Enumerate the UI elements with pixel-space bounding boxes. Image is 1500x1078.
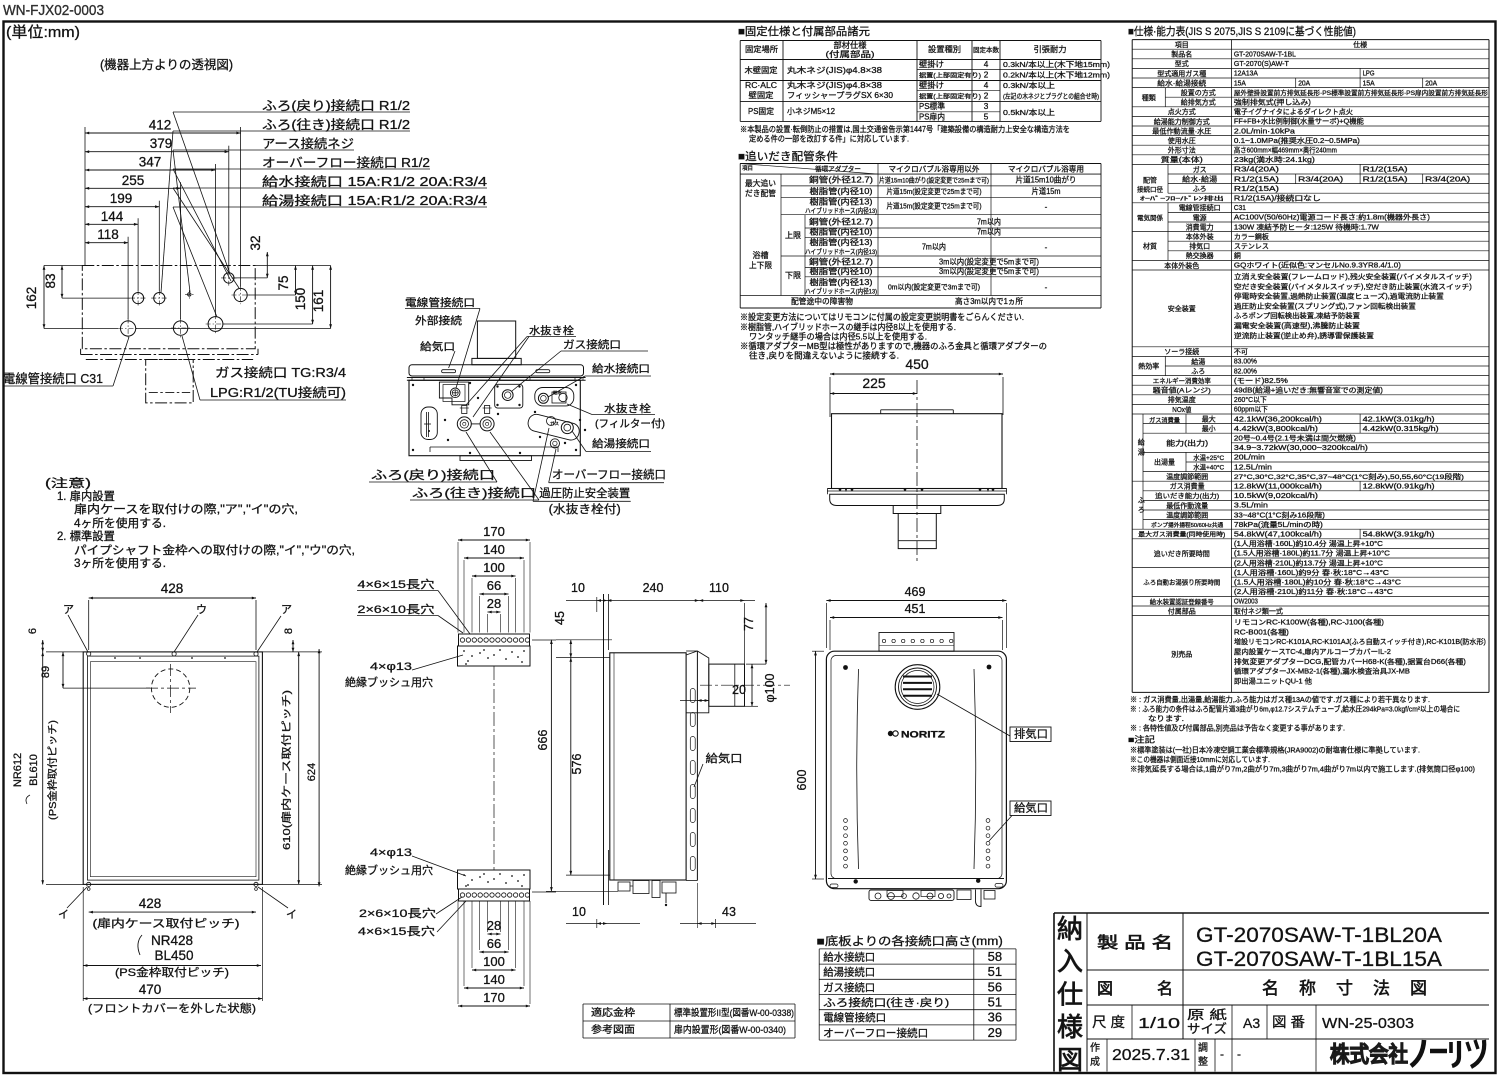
svg-text:(扉内ケース取付ピッチ): (扉内ケース取付ピッチ)	[93, 916, 240, 930]
svg-text:壁掛け: 壁掛け	[919, 80, 944, 90]
svg-text:66: 66	[487, 578, 501, 593]
svg-text:28: 28	[487, 918, 501, 933]
svg-text:給水接続口: 給水接続口	[823, 950, 875, 963]
svg-text:10.5kW(9,020kcal/h): 10.5kW(9,020kcal/h)	[1234, 493, 1318, 500]
exhaust collar and pipe side view	[686, 651, 709, 713]
svg-text:428: 428	[161, 581, 184, 596]
svg-text:外形寸法: 外形寸法	[1168, 146, 1196, 155]
svg-text:■注記: ■注記	[1128, 734, 1156, 744]
svg-text:原 紙: 原 紙	[1187, 1007, 1228, 1022]
svg-text:電線管接続口: 電線管接続口	[823, 1011, 886, 1024]
svg-text:51: 51	[988, 995, 1002, 1010]
svg-text:屋外壁掛設置前方排気延長形·PS標準設置前方排気延長形·PS: 屋外壁掛設置前方排気延長形·PS標準設置前方排気延長形·PS扉内設置前方排気延長…	[1234, 88, 1489, 97]
svg-text:3ヶ所を使用する.: 3ヶ所を使用する.	[74, 556, 166, 570]
svg-text:停電時安全装置,過熱防止装置(温度ヒューズ),過電流防止装置: 停電時安全装置,過熱防止装置(温度ヒューズ),過電流防止装置	[1234, 292, 1444, 301]
svg-text:※本製品の設置·転倒防止の措置は,国土交通省告示第1447号: ※本製品の設置·転倒防止の措置は,国土交通省告示第1447号「建築設備の構造耐力…	[740, 124, 1070, 134]
svg-text:サイズ: サイズ	[1187, 1021, 1227, 1036]
left vertical dims 83 and 162	[61, 266, 63, 299]
svg-text:42.1kW(3.01kg/h): 42.1kW(3.01kg/h)	[1363, 416, 1435, 423]
svg-text:58: 58	[988, 949, 1002, 964]
svg-text:図: 図	[1097, 981, 1113, 998]
svg-text:最低作動流量: 最低作動流量	[1166, 501, 1208, 510]
svg-text:ふろ接続口(往き·戻り): ふろ接続口(往き·戻り)	[823, 996, 949, 1009]
svg-text:調: 調	[1198, 1041, 1208, 1054]
svg-text:ふろ(戻り)接続口 R1/2: ふろ(戻り)接続口 R1/2	[262, 98, 410, 113]
svg-text:樹脂管(内径13): 樹脂管(内径13)	[810, 197, 873, 207]
svg-text:定める件の一部を改訂する件」に対応しています.: 定める件の一部を改訂する件」に対応しています.	[749, 134, 909, 144]
svg-text:屋内設置ケースTC-4,扉内アルコーブカバーIL-2: 屋内設置ケースTC-4,扉内アルコーブカバーIL-2	[1234, 647, 1391, 656]
svg-text:(1人用浴槽·160L)約10.4分 湯温上昇+10°C: (1人用浴槽·160L)約10.4分 湯温上昇+10°C	[1234, 539, 1383, 548]
svg-text:WN-25-0303: WN-25-0303	[1322, 1015, 1414, 1032]
bottom flange rounded	[830, 494, 1005, 505]
svg-text:FF+FB+水比例制御(水量サーボ)+Q機能: FF+FB+水比例制御(水量サーボ)+Q機能	[1234, 117, 1364, 126]
svg-text:100: 100	[483, 560, 505, 575]
svg-text:往き,戻りを間違えないように接続する.: 往き,戻りを間違えないように接続する.	[749, 350, 899, 361]
svg-text:給気口: 給気口	[420, 340, 455, 353]
svg-text:本体外装色: 本体外装色	[1164, 261, 1199, 270]
svg-text:丸木ネジ(JIS)φ4.8×38: 丸木ネジ(JIS)φ4.8×38	[787, 65, 883, 75]
svg-text:412: 412	[149, 118, 172, 133]
svg-text:高さ600mm×幅469mm×奥行240mm: 高さ600mm×幅469mm×奥行240mm	[1234, 146, 1337, 155]
svg-text:170: 170	[483, 990, 505, 1005]
svg-text:出湯量: 出湯量	[1154, 458, 1175, 467]
svg-text:■固定仕様と付属部品諸元: ■固定仕様と付属部品諸元	[738, 24, 870, 38]
top bracket front view	[879, 633, 954, 652]
svg-text:0.3kN/本以上: 0.3kN/本以上	[1003, 80, 1055, 90]
svg-text:ポンプ揚外揚程50/60Hz共通: ポンプ揚外揚程50/60Hz共通	[1151, 521, 1223, 529]
svg-text:材質: 材質	[1143, 242, 1157, 251]
svg-text:R3/4(20A): R3/4(20A)	[1298, 176, 1343, 183]
svg-text:ガス接続口: ガス接続口	[563, 338, 621, 351]
svg-text:49dB(給湯+追いだき:無響音室での測定値): 49dB(給湯+追いだき:無響音室での測定値)	[1234, 386, 1383, 395]
svg-text:144: 144	[101, 209, 124, 224]
svg-text:上限: 上限	[785, 231, 801, 240]
svg-text:■追いだき配管条件: ■追いだき配管条件	[738, 149, 838, 163]
svg-text:240: 240	[643, 581, 664, 595]
svg-text:GT-2070(S)AW-T: GT-2070(S)AW-T	[1234, 61, 1290, 68]
svg-text:4×6×15長穴: 4×6×15長穴	[358, 924, 435, 938]
svg-text:NORITZ: NORITZ	[901, 730, 946, 740]
side body outline	[610, 653, 686, 880]
svg-text:36: 36	[988, 1010, 1002, 1025]
horizontal dimension lines 412/379/347/255/199/144/118	[85, 132, 241, 134]
svg-text:20号~0.4号(2.1号未満は間欠燃焼): 20号~0.4号(2.1号未満は間欠燃焼)	[1234, 434, 1356, 443]
svg-text:水温+25°C: 水温+25°C	[1193, 453, 1224, 462]
svg-text:4.42kW(3,800kcal/h): 4.42kW(3,800kcal/h)	[1234, 426, 1318, 433]
svg-text:排気温度: 排気温度	[1168, 395, 1196, 404]
svg-text:壁掛け: 壁掛け	[919, 59, 944, 69]
svg-text:54.8kW(3.91kg/h): 54.8kW(3.91kg/h)	[1363, 532, 1435, 539]
svg-text:110: 110	[709, 581, 729, 595]
svg-text:GT-2070SAW-T-1BL20A: GT-2070SAW-T-1BL20A	[1196, 924, 1442, 947]
svg-text:(注意): (注意)	[45, 476, 91, 490]
svg-text:循環アダプターJX-MB2-1(各種),漏水検査治具JX-M: 循環アダプターJX-MB2-1(各種),漏水検査治具JX-MB	[1234, 667, 1410, 676]
svg-text:NR428: NR428	[151, 933, 193, 948]
svg-text:2×6×10長穴: 2×6×10長穴	[358, 602, 435, 616]
svg-text:PS固定: PS固定	[748, 106, 774, 116]
svg-text:162: 162	[24, 287, 39, 310]
svg-text:2: 2	[984, 71, 989, 80]
svg-text:(機器上方よりの透視図): (機器上方よりの透視図)	[100, 57, 233, 72]
svg-text:給湯接続口 15A:R1/2 20A:R3/4: 給湯接続口 15A:R1/2 20A:R3/4	[262, 193, 487, 208]
svg-text:LPG:R1/2(TU接続可): LPG:R1/2(TU接続可)	[210, 385, 346, 400]
svg-text:点火方式: 点火方式	[1168, 107, 1196, 116]
svg-text:ハイブリッドホース(内径13): ハイブリッドホース(内径13)	[805, 287, 877, 296]
svg-text:給水接続口: 給水接続口	[592, 362, 650, 375]
svg-text:ステンレス: ステンレス	[1234, 243, 1269, 251]
svg-text:28: 28	[487, 596, 501, 611]
vertical pipe detail left	[426, 412, 428, 437]
svg-text:固定場所: 固定場所	[745, 44, 778, 54]
svg-text:マイクロバブル浴専用: マイクロバブル浴専用	[1008, 164, 1084, 174]
svg-text:上下限: 上下限	[749, 261, 772, 270]
svg-text:161: 161	[311, 290, 326, 313]
svg-text:R1/2(15A): R1/2(15A)	[1363, 176, 1408, 183]
svg-text:リモコンRC-K100W(各種),RC-J100(各種): リモコンRC-K100W(各種),RC-J100(各種)	[1234, 618, 1384, 627]
svg-text:製 品 名: 製 品 名	[1097, 934, 1173, 952]
svg-text:15A: 15A	[1234, 80, 1246, 87]
svg-text:電源: 電源	[1193, 213, 1207, 222]
svg-text:NOx値: NOx値	[1172, 405, 1191, 414]
svg-text:10: 10	[572, 905, 586, 919]
svg-text:型式: 型式	[1175, 59, 1189, 68]
mounting rail double line	[407, 377, 586, 379]
svg-text:増設リモコンRC-K101A,RC-K101AJ(ふろ自動ス: 増設リモコンRC-K101A,RC-K101AJ(ふろ自動スイッチ付き),RC-…	[1234, 637, 1486, 646]
svg-text:0.5kN/本以上: 0.5kN/本以上	[1003, 107, 1055, 117]
svg-text:0.2kN/本以上(木下地12mm): 0.2kN/本以上(木下地12mm)	[1003, 70, 1111, 80]
svg-text:7m以内: 7m以内	[922, 242, 946, 252]
svg-text:部材仕様: 部材仕様	[834, 40, 867, 50]
svg-text:給水接続口 15A:R1/2 20A:R3/4: 給水接続口 15A:R1/2 20A:R3/4	[262, 174, 487, 189]
svg-text:ふろ: ふろ	[1191, 367, 1205, 375]
bracket ext lines	[457, 542, 459, 633]
svg-text:漏電安全装置(高速型),沸騰防止装置: 漏電安全装置(高速型),沸騰防止装置	[1234, 321, 1360, 330]
svg-text:32: 32	[248, 235, 263, 250]
svg-text:小ネジM5×12: 小ネジM5×12	[787, 106, 835, 116]
svg-text:空だき安全装置(バイメタルスイッチ),空だき防止装置(水流ス: 空だき安全装置(バイメタルスイッチ),空だき防止装置(水流スイッチ)	[1234, 282, 1472, 291]
svg-text:4×φ13: 4×φ13	[370, 847, 412, 859]
svg-text:R3/4(20A): R3/4(20A)	[1425, 176, 1470, 183]
svg-text:※ : ガス消費量,出湯量,給湯能力,ふろ能力はガス種13A: ※ : ガス消費量,出湯量,給湯能力,ふろ能力はガス種13Aの値です.ガス種によ…	[1130, 695, 1430, 704]
svg-text:3.5L/min: 3.5L/min	[1234, 503, 1268, 510]
connection hole circles in top view	[133, 293, 144, 304]
svg-text:電線管接続口 C31: 電線管接続口 C31	[3, 371, 103, 386]
right vertical dims 32 75 150 161	[266, 252, 268, 278]
svg-text:作: 作	[1090, 1042, 1100, 1054]
svg-text:R1/2(15A): R1/2(15A)	[1234, 186, 1279, 193]
svg-text:適応金枠: 適応金枠	[591, 1006, 635, 1019]
svg-text:電子イグナイタによるダイレクト点火: 電子イグナイタによるダイレクト点火	[1234, 107, 1353, 116]
svg-text:参考図面: 参考図面	[591, 1023, 635, 1036]
svg-text:ガス接続口 TG:R3/4: ガス接続口 TG:R3/4	[215, 365, 346, 380]
svg-text:逆流防止装置(逆止め弁),誘導雷保護装置: 逆流防止装置(逆止め弁),誘導雷保護装置	[1234, 331, 1374, 340]
svg-text:様: 様	[1057, 1012, 1083, 1042]
dim 666 between brackets	[532, 639, 556, 641]
svg-text:(1.5人用浴槽·180L)約11.7分 湯温上昇+10°C: (1.5人用浴槽·180L)約11.7分 湯温上昇+10°C	[1234, 549, 1390, 558]
svg-text:片道15m(設定変更で25mまで可): 片道15m(設定変更で25mまで可)	[887, 187, 982, 196]
svg-text:配管途中の障害物: 配管途中の障害物	[791, 296, 853, 306]
svg-text:給水装置認証登録番号: 給水装置認証登録番号	[1150, 597, 1214, 606]
svg-text:(PS金枠取付ピッチ): (PS金枠取付ピッチ)	[115, 965, 229, 979]
panel outer rectangle	[83, 652, 262, 885]
bottom mounting holes	[87, 882, 91, 886]
svg-text:20L/min: 20L/min	[1234, 455, 1265, 462]
svg-text:過圧防止安全装置: 過圧防止安全装置	[539, 486, 630, 500]
svg-text:入: 入	[1057, 947, 1083, 977]
svg-text:設置の方式: 設置の方式	[1181, 88, 1216, 97]
NORITZ logo	[888, 730, 946, 740]
svg-text:項目: 項目	[742, 165, 753, 172]
svg-text:※この機器は側面近接10mmに対応しています.: ※この機器は側面近接10mmに対応しています.	[1130, 755, 1270, 764]
svg-text:AC100V(50/60Hz)電源コード長さ:約1.8m(機: AC100V(50/60Hz)電源コード長さ:約1.8m(機器外長さ)	[1234, 213, 1430, 222]
svg-text:-: -	[1045, 243, 1048, 252]
svg-text:75: 75	[276, 275, 291, 290]
svg-text:※ : ふろ能力の条件はふろ配管片道3曲がり6m,φ12.7: ※ : ふろ能力の条件はふろ配管片道3曲がり6m,φ12.7システムチューブ,給…	[1130, 704, 1460, 713]
svg-text:温度調節範囲: 温度調節範囲	[1166, 472, 1208, 481]
svg-text:φ100: φ100	[763, 673, 777, 702]
svg-text:29: 29	[988, 1025, 1002, 1040]
svg-text:ウ: ウ	[196, 603, 207, 616]
svg-text:8: 8	[283, 628, 295, 634]
svg-text:LPG: LPG	[1363, 71, 1375, 78]
svg-text:追いだき所要時間: 追いだき所要時間	[1154, 549, 1210, 558]
svg-text:寸: 寸	[1336, 979, 1353, 998]
mount rail lines	[827, 488, 1006, 490]
svg-text:77: 77	[742, 617, 756, 631]
svg-text:ふろ(戻り)接続口: ふろ(戻り)接続口	[371, 467, 495, 482]
svg-text:電線管接続口: 電線管接続口	[405, 296, 475, 309]
svg-text:199: 199	[110, 191, 133, 206]
title block	[1054, 912, 1489, 914]
svg-text:木壁固定: 木壁固定	[745, 65, 778, 75]
svg-text:排気変更アダプターDCG,配管カバーH68-K(各種),据置: 排気変更アダプターDCG,配管カバーH68-K(各種),据置台D66(各種)	[1234, 657, 1466, 666]
svg-text:給湯接続口: 給湯接続口	[823, 966, 875, 979]
svg-text:騒音値(Aレンジ): 騒音値(Aレンジ)	[1153, 386, 1211, 395]
svg-text:R1/2(15A): R1/2(15A)	[1363, 167, 1408, 174]
svg-text:樹脂管(内径13): 樹脂管(内径13)	[810, 277, 873, 287]
svg-text:電気関係: 電気関係	[1137, 213, 1164, 222]
svg-text:ガス消費量: ガス消費量	[1149, 417, 1180, 425]
svg-text:(水抜き栓付): (水抜き栓付)	[549, 502, 621, 516]
date row	[1106, 1039, 1108, 1072]
svg-text:4: 4	[984, 60, 989, 69]
svg-text:マイクロバブル浴専用以外: マイクロバブル浴専用以外	[889, 164, 980, 174]
air intake tabs on top plate	[442, 370, 456, 373]
svg-text:給排気方式: 給排気方式	[1181, 98, 1216, 107]
top view bottom flange dash-dot	[81, 354, 258, 356]
svg-text:電線管接続口: 電線管接続口	[1179, 203, 1221, 212]
top corner bolts	[843, 665, 848, 670]
svg-text:質量(本体): 質量(本体)	[1161, 155, 1203, 164]
svg-text:43: 43	[722, 905, 736, 919]
svg-text:称: 称	[1299, 979, 1316, 998]
svg-text:丸木ネジ(JIS)φ4.8×38: 丸木ネジ(JIS)φ4.8×38	[787, 80, 883, 90]
lower bracket hole strip	[459, 889, 530, 901]
wall line	[603, 594, 605, 905]
bath return and supply valves	[462, 406, 467, 414]
svg-text:尺 度: 尺 度	[1092, 1014, 1125, 1030]
svg-text:片道15m10曲がり: 片道15m10曲がり	[1016, 175, 1077, 185]
svg-text:45: 45	[553, 611, 567, 625]
gas valve box center	[495, 384, 523, 408]
svg-text:樹脂管(内径10): 樹脂管(内径10)	[810, 186, 873, 196]
svg-text:給湯: 給湯	[1191, 357, 1205, 366]
svg-text:379: 379	[150, 136, 173, 151]
svg-text:標準設置形II型(図番W-00-0338): 標準設置形II型(図番W-00-0338)	[674, 1007, 794, 1019]
svg-text:ハイブリッドホース(内径13): ハイブリッドホース(内径13)	[805, 247, 877, 256]
svg-text:株式会社: 株式会社	[1330, 1042, 1408, 1067]
svg-text:仕: 仕	[1057, 979, 1083, 1009]
svg-text:12.8kW(0.91kg/h): 12.8kW(0.91kg/h)	[1363, 484, 1435, 491]
svg-text:イ: イ	[58, 909, 69, 921]
svg-text:4×φ13: 4×φ13	[370, 661, 412, 673]
svg-text:140: 140	[483, 972, 505, 987]
electrical box with earth screw	[439, 382, 468, 405]
top view body outline dash-dot box	[82, 266, 255, 349]
svg-text:-: -	[1045, 203, 1048, 212]
svg-text:BL450: BL450	[154, 948, 193, 963]
svg-text:浴槽: 浴槽	[753, 250, 769, 260]
vent dots columns	[844, 819, 848, 823]
svg-text:扉内設置形(図番W-00-0340): 扉内設置形(図番W-00-0340)	[674, 1024, 786, 1036]
table2 header diagonal	[740, 164, 878, 175]
inner panel seam line	[430, 446, 558, 448]
svg-text:(付属部品): (付属部品)	[826, 49, 875, 59]
svg-text:PS標準: PS標準	[919, 101, 945, 111]
svg-text:83: 83	[43, 273, 58, 288]
svg-text:(2人用浴槽·210L)約13.7分 湯温上昇+10°C: (2人用浴槽·210L)約13.7分 湯温上昇+10°C	[1234, 558, 1383, 567]
svg-text:12.5L/min: 12.5L/min	[1234, 464, 1272, 471]
svg-text:RC·ALC: RC·ALC	[745, 81, 777, 90]
svg-text:※循環アダプターMB型は極性がありますので,機器のふろ金具と: ※循環アダプターMB型は極性がありますので,機器のふろ金具と循環アダプターの	[740, 340, 1047, 351]
svg-text:絶縁ブッシュ用穴: 絶縁ブッシュ用穴	[345, 675, 433, 689]
front bottom base band	[828, 878, 1004, 880]
svg-text:5: 5	[984, 113, 989, 122]
svg-text:※排気延長する場合は,1曲がり7m,2曲がり7m,3曲がり7: ※排気延長する場合は,1曲がり7m,2曲がり7m,3曲がり7m,4曲がり7m以内…	[1130, 764, 1475, 773]
svg-text:666: 666	[536, 730, 550, 751]
svg-text:3m以内(設定変更で5mまで可): 3m以内(設定変更で5mまで可)	[939, 257, 1039, 267]
svg-text:(PS金枠取付ピッチ): (PS金枠取付ピッチ)	[46, 720, 59, 820]
svg-text:外部接続: 外部接続	[415, 314, 463, 327]
lower bracket plate	[458, 870, 531, 889]
svg-text:給湯接続口: 給湯接続口	[592, 437, 650, 450]
svg-text:立消え安全装置(フレームロッド),残火安全装置(バイメタルス: 立消え安全装置(フレームロッド),残火安全装置(バイメタルスイッチ)	[1234, 272, 1472, 281]
svg-text:銅管(外径12.7): 銅管(外径12.7)	[809, 257, 873, 267]
svg-text:(1人用浴槽·160L)約9分 春·秋:18°C→43°C: (1人用浴槽·160L)約9分 春·秋:18°C→43°C	[1234, 568, 1389, 577]
exhaust duct on top	[477, 321, 515, 358]
svg-text:接続口径: 接続口径	[1137, 185, 1164, 194]
svg-text:給水·給湯: 給水·給湯	[1182, 174, 1217, 183]
svg-text:引張耐力: 引張耐力	[1034, 44, 1067, 54]
svg-text:470: 470	[139, 982, 162, 997]
svg-text:最大: 最大	[1202, 414, 1216, 423]
svg-text:260°C以下: 260°C以下	[1234, 396, 1267, 404]
svg-text:78kPa(流量5L/minの時): 78kPa(流量5L/minの時)	[1234, 520, 1323, 529]
svg-text:フィッシャープラグSX 6×30: フィッシャープラグSX 6×30	[787, 90, 893, 100]
svg-text:名: 名	[1157, 980, 1173, 998]
exhaust outlet circle	[895, 665, 940, 710]
svg-text:だき配管: だき配管	[745, 188, 776, 198]
svg-text:能力(出力): 能力(出力)	[1166, 438, 1208, 447]
svg-text:※ : 各特性値及び付属部品,別売品は予告なく変更する事があ: ※ : 各特性値及び付属部品,別売品は予告なく変更する事があります.	[1130, 723, 1345, 732]
svg-text:※設定変更方法についてはリモコンに付属の設定変更説明書をごら: ※設定変更方法についてはリモコンに付属の設定変更説明書をごらんください.	[740, 311, 1024, 322]
svg-text:循環アダプター: 循環アダプター	[815, 164, 861, 173]
svg-text:片道15m(設定変更で25mまで可): 片道15m(設定変更で25mまで可)	[887, 202, 982, 211]
svg-text:624: 624	[306, 763, 318, 781]
svg-text:(フロントカバーを外した状態): (フロントカバーを外した状態)	[88, 1001, 256, 1015]
svg-text:最大追い: 最大追い	[745, 178, 776, 188]
main body outline	[409, 380, 580, 455]
svg-text:熱効率: 熱効率	[1138, 362, 1159, 371]
svg-text:ハイブリッドホース(内径13): ハイブリッドホース(内径13)	[805, 206, 877, 215]
panel inner rectangles	[88, 656, 259, 880]
svg-text:図: 図	[1410, 979, 1427, 998]
side flange and louver strip	[696, 651, 698, 881]
svg-text:576: 576	[570, 754, 584, 775]
svg-text:名: 名	[1262, 979, 1279, 998]
svg-text:■仕様·能力表(JIS S 2075,JIS S 2109に: ■仕様·能力表(JIS S 2075,JIS S 2109に基づく性能値)	[1128, 24, 1356, 38]
svg-text:R1/2(15A)/接続口なし: R1/2(15A)/接続口なし	[1234, 194, 1321, 203]
svg-text:-: -	[1045, 283, 1048, 292]
svg-text:PS扉内: PS扉内	[919, 112, 945, 122]
svg-text:銅管(外径12.7): 銅管(外径12.7)	[809, 217, 873, 227]
svg-text:20A: 20A	[1298, 80, 1310, 87]
svg-text:42.1kW(36,200kcal/h): 42.1kW(36,200kcal/h)	[1234, 416, 1322, 423]
svg-text:R3/4(20A): R3/4(20A)	[1234, 167, 1279, 174]
center line dash-dot	[916, 380, 918, 563]
svg-text:82.00%: 82.00%	[1234, 368, 1257, 375]
svg-text:湯: 湯	[1138, 447, 1145, 456]
svg-text:エネルギー消費効率: エネルギー消費効率	[1153, 376, 1212, 385]
svg-text:7m以内: 7m以内	[977, 217, 1001, 227]
svg-text:配管: 配管	[1143, 176, 1157, 185]
svg-text:ふろ(往き)接続口 R1/2: ふろ(往き)接続口 R1/2	[262, 117, 410, 132]
svg-text:仕様: 仕様	[1353, 40, 1367, 49]
bottom flange	[460, 456, 532, 461]
svg-text:(単位:mm): (単位:mm)	[6, 24, 80, 41]
svg-text:1. 扉内設置: 1. 扉内設置	[57, 489, 115, 503]
svg-text:製品名: 製品名	[1171, 50, 1192, 59]
svg-text:型式適用ガス種: 型式適用ガス種	[1157, 69, 1206, 78]
svg-text:610(扉内ケース取付ピッチ): 610(扉内ケース取付ピッチ)	[280, 690, 293, 850]
svg-text:消費電力: 消費電力	[1186, 222, 1214, 231]
exhaust hole dashed circle	[151, 669, 189, 707]
svg-text:83.00%: 83.00%	[1234, 359, 1257, 366]
svg-text:27°C,30°C,32°C,35°C,37~48°C(1°: 27°C,30°C,32°C,35°C,37~48°C(1°C刻み),50,55…	[1234, 472, 1464, 481]
svg-text:温度調節範囲: 温度調節範囲	[1166, 510, 1208, 519]
svg-text:水抜き栓: 水抜き栓	[604, 402, 652, 415]
svg-text:成: 成	[1090, 1056, 1100, 1068]
svg-text:ガス消費量: ガス消費量	[1170, 482, 1205, 491]
right dim 610 and 624	[298, 652, 300, 885]
svg-text:BL610: BL610	[28, 754, 40, 786]
left oval opening	[421, 407, 437, 440]
svg-text:54.8kW(47,100kcal/h): 54.8kW(47,100kcal/h)	[1234, 532, 1322, 539]
svg-text:ガス: ガス	[1193, 165, 1207, 174]
svg-text:追いだき能力(出力): 追いだき能力(出力)	[1155, 491, 1219, 500]
svg-text:ソーラ接続: ソーラ接続	[1164, 347, 1199, 356]
svg-text:60ppm以下: 60ppm以下	[1234, 406, 1268, 414]
svg-text:設置種別: 設置種別	[928, 44, 961, 54]
svg-text:据置(上部固定有り): 据置(上部固定有り)	[919, 93, 981, 101]
svg-text:140: 140	[483, 542, 505, 557]
svg-text:23kg(満水時:24.1kg): 23kg(満水時:24.1kg)	[1234, 155, 1315, 164]
svg-text:56: 56	[988, 979, 1002, 994]
svg-text:12.8kW(11,000kcal/h): 12.8kW(11,000kcal/h)	[1234, 484, 1322, 491]
svg-text:別売品: 別売品	[1171, 650, 1192, 659]
svg-text:オーバーフロー接続口: オーバーフロー接続口	[552, 468, 666, 482]
svg-text:7m以内: 7m以内	[977, 227, 1001, 237]
